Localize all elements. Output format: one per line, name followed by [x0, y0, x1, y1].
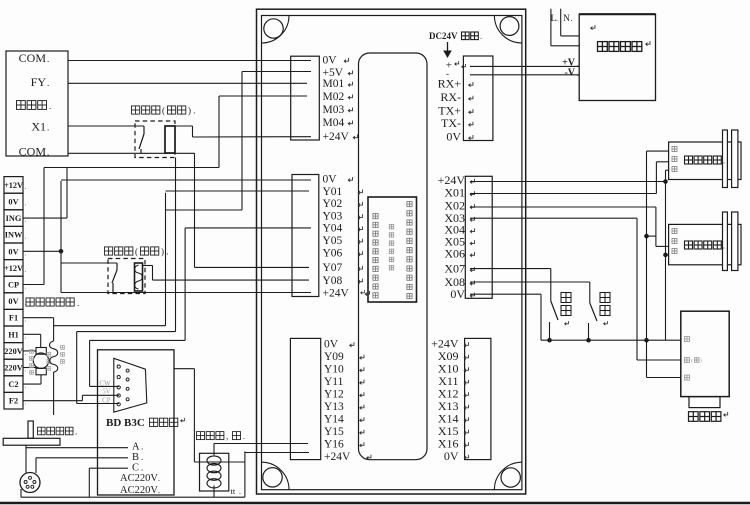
svg-text:.: .: [25, 399, 27, 407]
svg-text:.: .: [25, 233, 27, 241]
svg-text:+24V: +24V: [323, 287, 350, 299]
svg-text:INW: INW: [5, 231, 23, 240]
svg-text:Y15: Y15: [324, 426, 344, 438]
svg-text:Y06: Y06: [323, 248, 343, 260]
svg-text:Y09: Y09: [324, 351, 344, 363]
svg-text:Y11: Y11: [324, 376, 344, 388]
svg-text:.: .: [25, 316, 27, 324]
svg-text:+5V: +5V: [323, 67, 344, 79]
svg-text:.: .: [141, 442, 143, 452]
svg-text:A: A: [132, 442, 140, 453]
svg-text:.: .: [571, 14, 573, 23]
svg-text:C: C: [132, 463, 139, 474]
svg-text:.: .: [47, 123, 49, 133]
svg-text:.: .: [77, 298, 79, 308]
svg-text:220V: 220V: [4, 364, 22, 373]
svg-text:0V: 0V: [446, 129, 461, 143]
svg-text:0V: 0V: [8, 297, 18, 306]
svg-text:Y10: Y10: [324, 364, 344, 376]
svg-text:0V: 0V: [450, 287, 465, 301]
svg-text:BD B3C: BD B3C: [106, 417, 145, 429]
svg-text:.: .: [47, 78, 49, 88]
svg-text:F1: F1: [9, 314, 18, 323]
svg-text:Y08: Y08: [323, 275, 343, 287]
svg-text:0V: 0V: [8, 247, 18, 256]
svg-text:.: .: [243, 432, 245, 441]
svg-text:tt: tt: [231, 486, 236, 496]
svg-text:.: .: [141, 463, 143, 473]
svg-text:Y03: Y03: [323, 211, 343, 223]
svg-text:COM: COM: [19, 51, 47, 65]
svg-text:.: .: [25, 283, 27, 291]
svg-text:) .: ) .: [161, 247, 169, 257]
svg-text:FY: FY: [31, 75, 47, 89]
svg-text:+24V: +24V: [323, 131, 350, 143]
svg-text:.: .: [25, 266, 27, 274]
svg-text:F2: F2: [9, 397, 18, 406]
svg-text:+24V: +24V: [324, 451, 351, 463]
svg-text:.: .: [25, 366, 27, 374]
svg-text:B: B: [132, 452, 139, 463]
svg-text:0V: 0V: [8, 198, 18, 207]
svg-text:,: ,: [226, 431, 228, 441]
svg-text:0V: 0V: [324, 339, 339, 351]
svg-text:X07: X07: [444, 261, 465, 275]
svg-text:0V: 0V: [444, 449, 459, 463]
svg-text:.: .: [158, 486, 160, 495]
svg-text:C2: C2: [8, 380, 18, 389]
svg-text:.: .: [47, 54, 49, 64]
svg-text:0V: 0V: [323, 54, 338, 66]
svg-text:220V: 220V: [4, 347, 22, 356]
svg-text:X1: X1: [31, 120, 46, 134]
svg-text:) .: ) .: [188, 106, 196, 116]
svg-text:M01: M01: [323, 78, 345, 90]
svg-text:Y12: Y12: [324, 389, 344, 401]
svg-text:-V: -V: [564, 68, 575, 79]
svg-text:.: .: [25, 200, 27, 208]
svg-text:Y01: Y01: [323, 186, 343, 198]
svg-text:(: (: [135, 247, 138, 257]
svg-text:.: .: [577, 60, 579, 68]
svg-text:.: .: [75, 427, 77, 437]
svg-text:0V: 0V: [323, 173, 338, 185]
svg-text:H1: H1: [8, 330, 19, 339]
svg-text:Y14: Y14: [324, 414, 344, 426]
svg-text:.: .: [239, 487, 241, 496]
svg-text:.: .: [141, 452, 143, 462]
svg-text:): ): [700, 357, 702, 364]
svg-text:M03: M03: [323, 104, 345, 116]
svg-text:+12V: +12V: [4, 181, 23, 190]
svg-text:RX+: RX+: [438, 76, 462, 90]
svg-text:(: (: [691, 357, 693, 364]
svg-text:.: .: [25, 183, 27, 191]
svg-text:.: .: [25, 349, 27, 357]
svg-text:Y04: Y04: [323, 223, 343, 235]
svg-text:M04: M04: [323, 117, 345, 129]
svg-text:.: .: [47, 148, 49, 158]
svg-text:.: .: [577, 70, 579, 78]
svg-text:.: .: [25, 332, 27, 340]
svg-text:.: .: [556, 14, 558, 23]
svg-text:AC220V: AC220V: [120, 485, 158, 496]
svg-text:X06: X06: [444, 246, 465, 260]
svg-text:.: .: [723, 157, 725, 166]
svg-text:.: .: [723, 242, 725, 251]
svg-text:.: .: [25, 249, 27, 257]
svg-text:.: .: [49, 101, 51, 111]
svg-text:DC24V: DC24V: [429, 31, 458, 41]
svg-text:5V: 5V: [102, 389, 110, 396]
svg-text:.: .: [25, 216, 27, 224]
svg-text:Y13: Y13: [324, 401, 344, 413]
svg-text:N: N: [563, 14, 570, 24]
svg-text:M02: M02: [323, 91, 345, 103]
svg-text:CP: CP: [8, 281, 19, 290]
svg-text:+12V: +12V: [4, 264, 23, 273]
svg-text:RX-: RX-: [440, 90, 461, 104]
svg-text:ING: ING: [6, 214, 22, 223]
svg-text:Y16: Y16: [324, 439, 344, 451]
svg-text:.: .: [158, 474, 160, 483]
svg-text:Y07: Y07: [323, 262, 343, 274]
svg-text:(: (: [162, 106, 165, 116]
svg-text:.: .: [480, 32, 482, 41]
svg-text:Y02: Y02: [323, 198, 343, 210]
svg-text:.: .: [25, 382, 27, 390]
svg-text:Y05: Y05: [323, 235, 343, 247]
svg-text:TX-: TX-: [441, 116, 461, 130]
svg-text:COM: COM: [19, 145, 47, 159]
svg-text:AC220V: AC220V: [120, 473, 158, 484]
